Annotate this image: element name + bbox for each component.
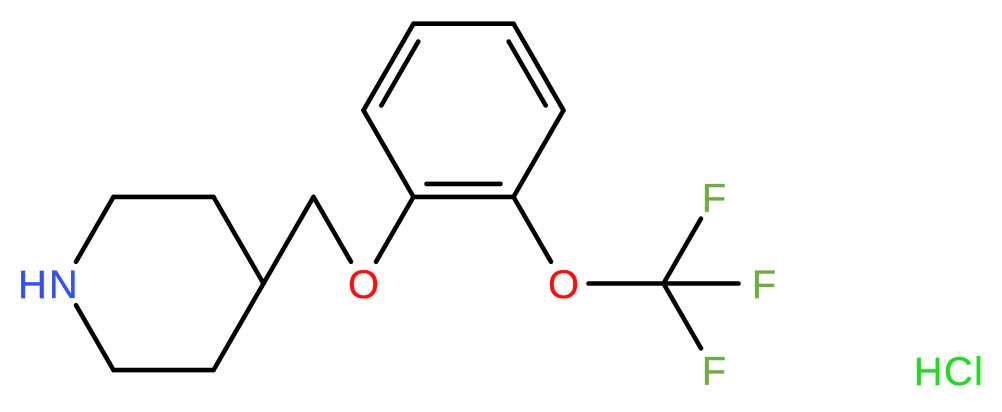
svg-text:F: F (752, 263, 776, 307)
svg-text:O: O (348, 263, 379, 307)
svg-text:F: F (702, 177, 726, 221)
svg-text:O: O (548, 263, 579, 307)
svg-text:HN: HN (18, 263, 80, 307)
svg-text:F: F (702, 350, 726, 394)
svg-text:HCl: HCl (914, 350, 984, 394)
